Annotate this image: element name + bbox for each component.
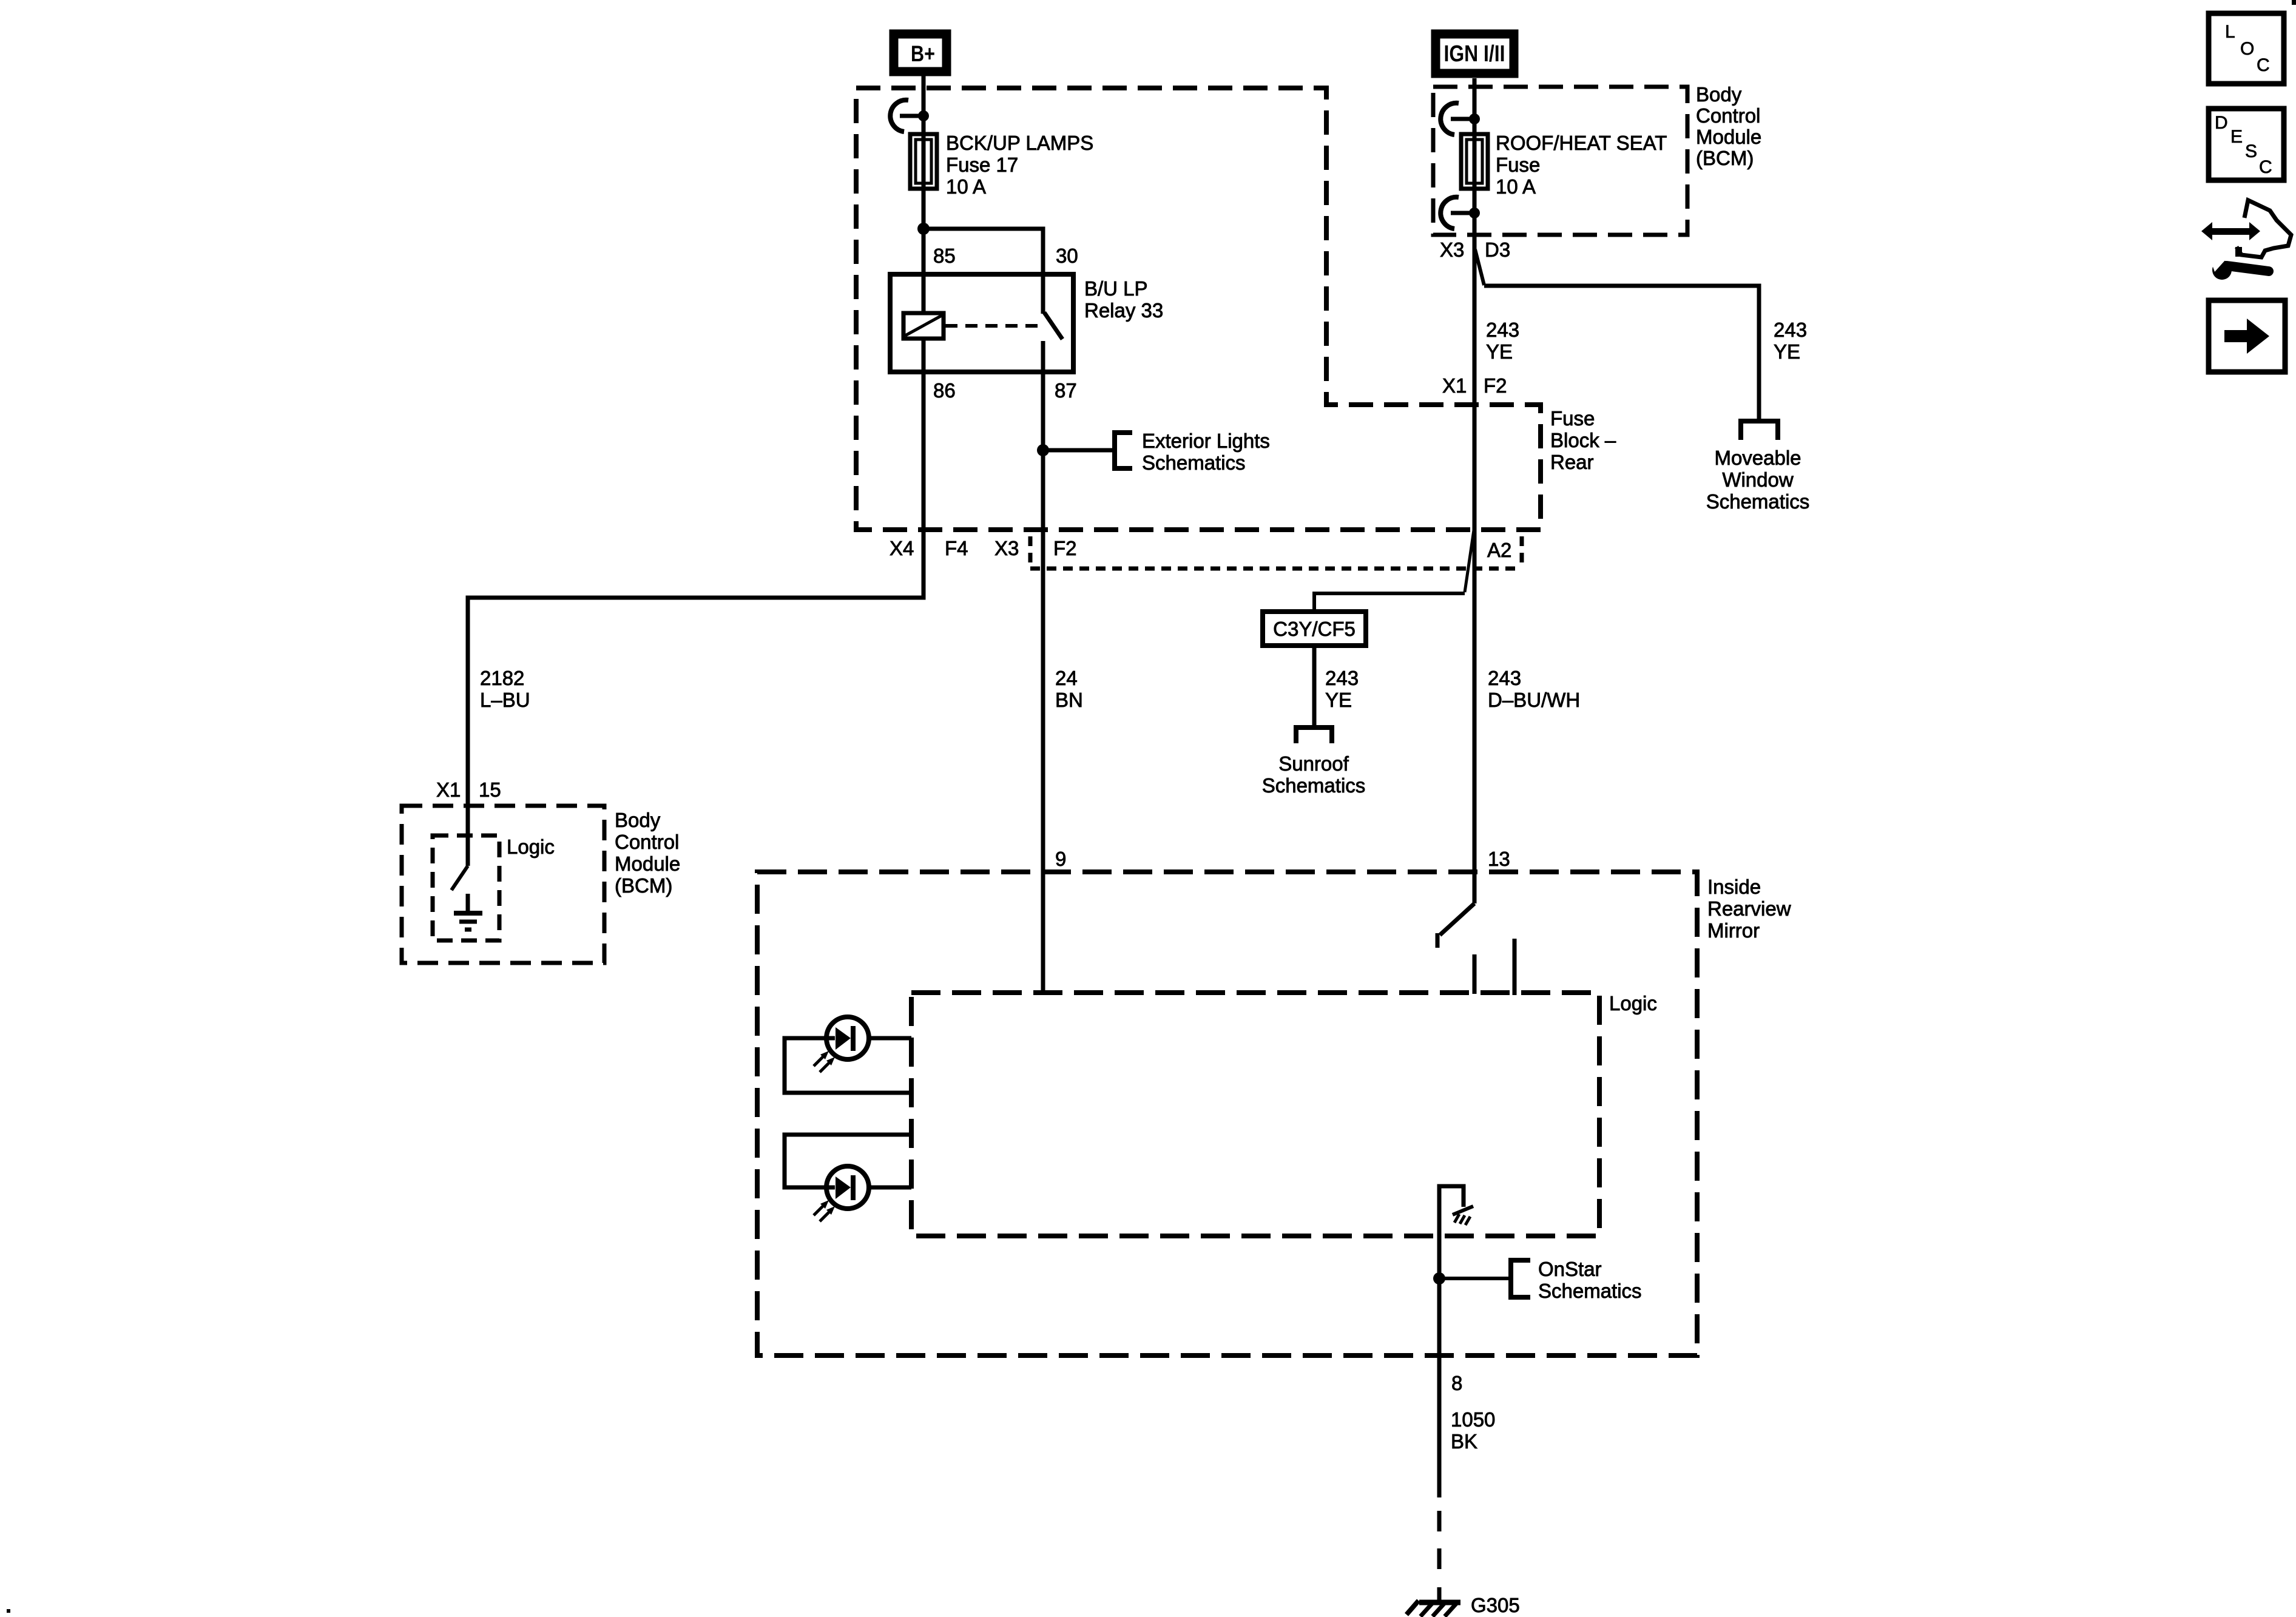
- svg-text:Control: Control: [1696, 104, 1760, 127]
- relay actuation dashed link: [945, 324, 1039, 328]
- wire pin 86 circuit 2182 to BCM: [468, 372, 923, 866]
- svg-text:Fuse: Fuse: [1550, 407, 1595, 430]
- svg-text:X3: X3: [1440, 238, 1464, 261]
- label roof/heat seat fuse: [1496, 132, 1667, 198]
- wire jog at D3: [1475, 249, 1484, 285]
- label circuit 1050 BK: [1451, 1408, 1495, 1453]
- svg-text:YE: YE: [1486, 340, 1513, 363]
- svg-text:L: L: [2225, 22, 2235, 42]
- svg-text:S: S: [2245, 141, 2257, 161]
- label body control module BCM left: [615, 809, 680, 897]
- label exterior lights schematics: [1142, 430, 1270, 474]
- svg-text:D3: D3: [1485, 238, 1510, 261]
- svg-text:9: 9: [1055, 848, 1066, 870]
- wire node to relay pin 30: [923, 229, 1043, 314]
- svg-text:1050: 1050: [1451, 1408, 1495, 1431]
- svg-text:G305: G305: [1471, 1594, 1520, 1616]
- wire 1050 BK hidden run: [1437, 1511, 1442, 1584]
- svg-text:X1: X1: [1442, 374, 1467, 397]
- label relay 33: [1084, 277, 1163, 322]
- label moveable window schematics: [1706, 447, 1810, 513]
- wire node to relay pin 85: [922, 229, 926, 313]
- svg-text:Rearview: Rearview: [1707, 897, 1791, 920]
- label circuit 2182 L-BU: [480, 667, 530, 711]
- svg-text:Schematics: Schematics: [1262, 774, 1366, 797]
- wire fuse down: [1473, 189, 1477, 213]
- off-page bracket exterior lights: [1115, 433, 1132, 468]
- label circuit 24 BN: [1055, 667, 1083, 711]
- connector clip below roof fuse: [1440, 197, 1480, 229]
- svg-text:O: O: [2240, 39, 2254, 59]
- svg-text:Schematics: Schematics: [1706, 490, 1810, 513]
- connector dotted boundary line: [1030, 567, 1522, 571]
- svg-text:YE: YE: [1325, 689, 1352, 711]
- node at pin 87 branch: [1037, 444, 1049, 456]
- svg-text:10 A: 10 A: [1496, 175, 1536, 198]
- inside rearview mirror dashed box: [757, 872, 1697, 1355]
- icon box arrow: [2209, 300, 2285, 372]
- mirror logic dashed box: [911, 993, 1599, 1236]
- BCM switch blade: [451, 866, 468, 890]
- label body control module BCM right: [1696, 83, 1761, 169]
- svg-text:Block –: Block –: [1550, 429, 1616, 451]
- svg-text:Inside: Inside: [1707, 876, 1761, 898]
- photodiode 2 loop wires: [785, 1135, 911, 1187]
- mirror internal ground wire: [1439, 1186, 1464, 1278]
- svg-text:Schematics: Schematics: [1142, 451, 1246, 474]
- connector clip at B+ feed: [890, 100, 929, 132]
- svg-text:86: 86: [933, 379, 956, 402]
- wire C3Y/CF5 to sunroof reference: [1312, 646, 1317, 727]
- BCM logic dashed box: [433, 836, 499, 940]
- svg-text:X4: X4: [890, 537, 914, 559]
- svg-text:Exterior Lights: Exterior Lights: [1142, 430, 1270, 452]
- wire relay coil to pin 86: [922, 339, 926, 372]
- label circuit 243 YE left: [1486, 319, 1519, 363]
- label onstar schematics: [1538, 1258, 1642, 1302]
- ground inside BCM: [454, 894, 482, 930]
- svg-text:Moveable: Moveable: [1714, 447, 1801, 469]
- svg-text:2182: 2182: [480, 667, 524, 689]
- connector box C3Y/CF5: [1263, 612, 1366, 646]
- svg-text:D: D: [2215, 113, 2228, 133]
- svg-text:D–BU/WH: D–BU/WH: [1488, 689, 1580, 711]
- page edge dot: [7, 1609, 10, 1613]
- photodiode 2 light arrows: [814, 1200, 835, 1221]
- photodiode 2: [826, 1166, 869, 1209]
- wire node to exterior lights reference: [1043, 448, 1113, 453]
- photodiode 1: [826, 1017, 869, 1059]
- svg-text:X1: X1: [436, 778, 461, 801]
- power symbol IGN I/II: [1436, 34, 1514, 73]
- svg-text:BCK/UP LAMPS: BCK/UP LAMPS: [946, 132, 1093, 154]
- wire circuit 243 YE main vertical: [1473, 213, 1477, 903]
- fuse 17 BCK/UP LAMPS 10A: [910, 134, 937, 189]
- mirror switch blade: [1437, 903, 1474, 948]
- photodiode 1 light arrows: [814, 1051, 835, 1072]
- off-page bracket onstar: [1511, 1260, 1530, 1297]
- label fuse 17: [946, 132, 1093, 198]
- mirror switch contact b: [1513, 939, 1517, 995]
- off-page bracket sunroof: [1296, 727, 1332, 743]
- svg-text:15: 15: [479, 778, 501, 801]
- svg-text:8: 8: [1451, 1372, 1462, 1394]
- wire jog at A2: [1465, 530, 1474, 592]
- svg-text:87: 87: [1055, 379, 1077, 402]
- svg-text:Logic: Logic: [507, 836, 555, 858]
- svg-text:E: E: [2230, 127, 2243, 147]
- svg-text:ROOF/HEAT SEAT: ROOF/HEAT SEAT: [1496, 132, 1667, 154]
- wire 243 YE to moveable window: [1484, 286, 1759, 419]
- svg-text:IGN I/II: IGN I/II: [1444, 41, 1505, 67]
- wire B+ to fuse 17: [922, 76, 926, 189]
- connector dotted boundary right stub: [1520, 536, 1524, 567]
- connector clip above roof fuse: [1440, 103, 1480, 135]
- wire fuse 17 to node: [922, 189, 926, 229]
- svg-text:A2: A2: [1487, 539, 1511, 561]
- mirror switch contact a: [1473, 954, 1477, 994]
- power symbol B+: [894, 34, 947, 72]
- svg-text:Control: Control: [615, 831, 679, 853]
- svg-text:BN: BN: [1055, 689, 1083, 711]
- relay B/U LP Relay 33: [890, 274, 1073, 372]
- relay coil: [903, 313, 944, 339]
- relay switch blade: [1044, 312, 1062, 339]
- fuse ROOF/HEAT SEAT 10A: [1461, 134, 1488, 189]
- svg-text:243: 243: [1774, 319, 1807, 341]
- svg-text:Sunroof: Sunroof: [1278, 752, 1349, 775]
- svg-text:C: C: [2257, 55, 2270, 75]
- wire 1050 BK to ground: [1437, 1587, 1442, 1602]
- svg-text:OnStar: OnStar: [1538, 1258, 1602, 1280]
- svg-text:Module: Module: [615, 852, 680, 875]
- svg-text:C3Y/CF5: C3Y/CF5: [1273, 618, 1356, 640]
- svg-text:10 A: 10 A: [946, 175, 986, 198]
- svg-text:F2: F2: [1484, 374, 1507, 397]
- off-page bracket moveable window: [1741, 421, 1778, 440]
- svg-text:B+: B+: [911, 41, 935, 66]
- svg-text:B/U LP: B/U LP: [1084, 277, 1148, 300]
- svg-text:Rear: Rear: [1550, 451, 1594, 473]
- wire branch to connector C3Y/CF5: [1314, 593, 1465, 612]
- label fuse block rear: [1550, 407, 1616, 473]
- svg-text:85: 85: [933, 245, 956, 267]
- svg-text:24: 24: [1055, 667, 1078, 689]
- wire circuit 24 BN down to mirror logic pin 9: [1041, 450, 1045, 993]
- icon box LOC: [2209, 13, 2284, 84]
- page corner mark: [2292, 0, 2296, 5]
- svg-text:Module: Module: [1696, 126, 1761, 148]
- svg-text:(BCM): (BCM): [615, 874, 672, 897]
- BCM dashed box around ignition fuse: [1433, 87, 1687, 235]
- svg-text:Logic: Logic: [1609, 992, 1657, 1014]
- wire pin 87 circuit 24 to node: [1041, 341, 1045, 450]
- svg-text:30: 30: [1056, 245, 1078, 267]
- chassis ground symbol inside mirror: [1453, 1206, 1473, 1225]
- svg-text:F2: F2: [1053, 537, 1077, 559]
- svg-text:243: 243: [1488, 667, 1521, 689]
- svg-text:Window: Window: [1722, 468, 1794, 491]
- svg-text:Body: Body: [615, 809, 661, 831]
- svg-text:YE: YE: [1774, 340, 1800, 363]
- svg-text:L–BU: L–BU: [480, 689, 530, 711]
- svg-text:C: C: [2259, 157, 2272, 177]
- node onstar branch: [1433, 1272, 1445, 1284]
- svg-text:Fuse: Fuse: [1496, 154, 1540, 176]
- icon vehicle outline with arrow and wrench: [2201, 200, 2291, 280]
- svg-text:Schematics: Schematics: [1538, 1280, 1642, 1302]
- connector X3 dotted boundary left stub: [1028, 536, 1033, 567]
- label inside rearview mirror: [1707, 876, 1791, 942]
- fuse block rear dashed outline: [856, 88, 1541, 530]
- svg-text:243: 243: [1325, 667, 1359, 689]
- wire IGN to fuse: [1473, 78, 1477, 189]
- svg-text:F4: F4: [945, 537, 968, 559]
- node at fuse 17 output: [917, 223, 930, 235]
- ground G305: [1406, 1601, 1460, 1616]
- BCM dashed box: [402, 806, 604, 963]
- svg-text:13: 13: [1488, 848, 1510, 870]
- label sunroof schematics: [1262, 752, 1366, 797]
- label circuit 243 D-BU/WH: [1488, 667, 1580, 711]
- wire circuit 1050 BK pin 8: [1437, 1278, 1442, 1497]
- photodiode 1 loop wires: [785, 1038, 911, 1093]
- svg-text:BK: BK: [1451, 1430, 1477, 1453]
- svg-text:243: 243: [1486, 319, 1519, 341]
- svg-text:(BCM): (BCM): [1696, 147, 1754, 169]
- svg-text:X3: X3: [994, 537, 1019, 559]
- svg-text:Body: Body: [1696, 83, 1742, 106]
- label circuit 243 YE sunroof: [1325, 667, 1359, 711]
- label circuit 243 YE right: [1774, 319, 1807, 363]
- svg-text:Fuse 17: Fuse 17: [946, 154, 1018, 176]
- icon box DESC: [2209, 109, 2284, 180]
- svg-text:Relay 33: Relay 33: [1084, 299, 1163, 322]
- svg-text:Mirror: Mirror: [1707, 919, 1760, 942]
- wire to onstar reference: [1439, 1277, 1511, 1280]
